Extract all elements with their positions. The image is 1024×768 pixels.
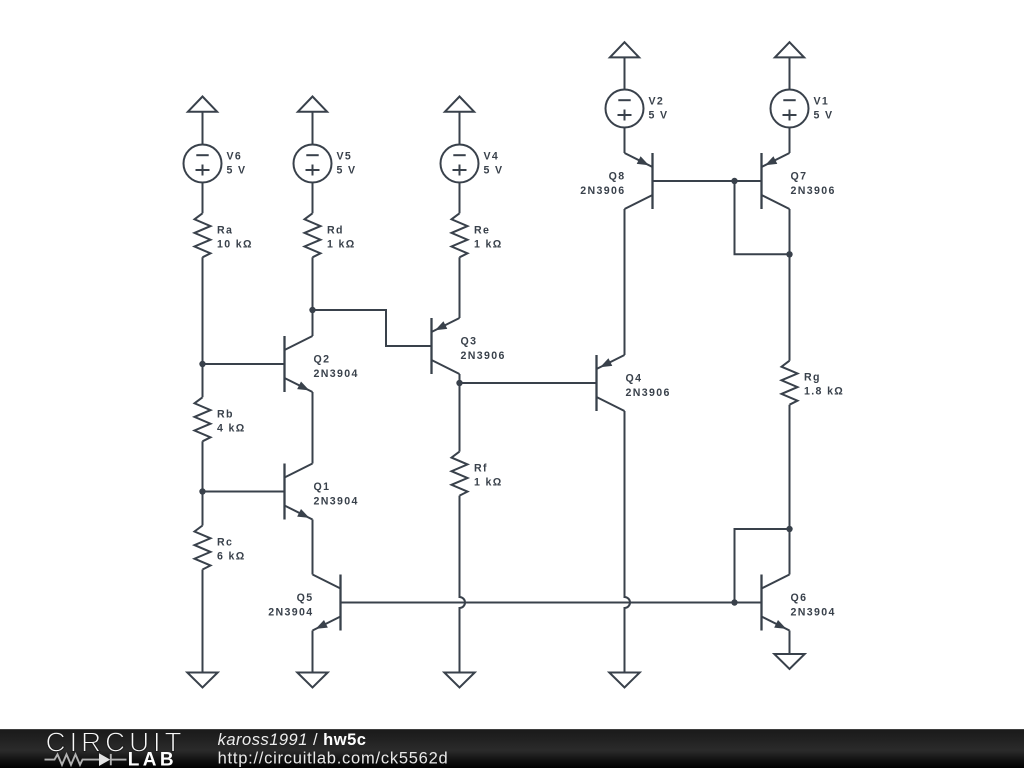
- wire E1: [789, 57, 791, 90]
- power supply PE: [775, 42, 804, 57]
- voltage source V6: [184, 145, 247, 183]
- ground GC: [444, 673, 474, 688]
- wire A3: [202, 257, 204, 397]
- transistor Q3: [432, 318, 506, 374]
- ground GB: [297, 673, 327, 688]
- node N6: [786, 251, 792, 257]
- svg-text:2N3906: 2N3906: [626, 387, 671, 399]
- wire C6: [460, 496, 466, 673]
- transistor Q1: [285, 464, 359, 520]
- node N3: [199, 488, 205, 494]
- transistor Q8: [580, 153, 652, 209]
- svg-text:Q7: Q7: [791, 171, 808, 183]
- logo diode: [99, 753, 110, 766]
- wire C2: [459, 183, 461, 214]
- wire A1: [202, 112, 204, 145]
- resistor Ra: [195, 213, 253, 257]
- svg-text:1 kΩ: 1 kΩ: [327, 238, 356, 250]
- voltage source V1: [771, 90, 834, 128]
- wire A5: [202, 570, 204, 673]
- wire B4: [312, 392, 314, 464]
- power supply PD: [610, 42, 639, 57]
- resistor Re: [452, 213, 503, 257]
- svg-text:http://circuitlab.com/ck5562d: http://circuitlab.com/ck5562d: [218, 750, 449, 768]
- wire D2: [624, 128, 626, 154]
- svg-text:2N3906: 2N3906: [791, 185, 836, 197]
- svg-text:Rc: Rc: [217, 537, 233, 549]
- svg-text:2N3904: 2N3904: [314, 495, 359, 507]
- node N7: [786, 526, 792, 532]
- svg-text:6 kΩ: 6 kΩ: [217, 551, 246, 563]
- svg-text:V6: V6: [227, 150, 243, 162]
- svg-text:Rg: Rg: [804, 372, 821, 384]
- svg-text:Rb: Rb: [217, 408, 234, 420]
- wire C4: [459, 374, 461, 383]
- wire A-Q1base: [203, 491, 285, 493]
- voltage source V2: [606, 90, 669, 128]
- wire B2: [312, 183, 314, 214]
- wire A-Q2base: [203, 363, 285, 365]
- svg-text:2N3904: 2N3904: [314, 368, 359, 380]
- svg-text:V2: V2: [649, 95, 665, 107]
- transistor Q4: [597, 355, 671, 411]
- svg-text:Q6: Q6: [791, 592, 808, 604]
- svg-text:Re: Re: [474, 224, 490, 236]
- transistor Q6: [762, 575, 836, 631]
- node N8: [731, 599, 737, 605]
- power supply PC: [445, 97, 474, 112]
- wire A4: [202, 441, 204, 525]
- transistor Q5: [268, 575, 340, 631]
- svg-text:Ra: Ra: [217, 224, 233, 236]
- node N5: [731, 178, 737, 184]
- resistor Rb: [195, 397, 246, 441]
- wire E4: [789, 209, 791, 361]
- power supply PB: [298, 97, 327, 112]
- voltage source V4: [441, 145, 504, 183]
- voltage source V5: [294, 145, 357, 183]
- footer bar: [0, 729, 1024, 768]
- wire D1: [624, 57, 626, 90]
- resistor Rg: [782, 361, 845, 405]
- wire C3: [459, 257, 461, 318]
- resistor Rf: [452, 452, 503, 496]
- svg-text:V1: V1: [814, 95, 830, 107]
- svg-text:Q3: Q3: [461, 336, 478, 348]
- wire B-Q3base: [313, 310, 432, 346]
- svg-text:1.8 kΩ: 1.8 kΩ: [804, 386, 844, 398]
- ground GD: [609, 673, 639, 688]
- svg-text:2N3904: 2N3904: [268, 606, 313, 618]
- svg-text:2N3904: 2N3904: [791, 606, 836, 618]
- svg-text:5 V: 5 V: [227, 165, 247, 177]
- wire D-Q8base: [653, 180, 762, 182]
- transistor Q2: [285, 336, 359, 392]
- svg-text:5 V: 5 V: [814, 110, 834, 122]
- wire C-Q4base: [460, 382, 597, 384]
- resistor Rd: [305, 213, 356, 257]
- wire E7: [789, 631, 791, 655]
- svg-text:kaross1991 / hw5c: kaross1991 / hw5c: [218, 731, 367, 749]
- svg-text:2N3906: 2N3906: [580, 185, 625, 197]
- svg-text:Rd: Rd: [327, 224, 344, 236]
- wire E-mirrorbase: [341, 602, 762, 604]
- svg-text:Q1: Q1: [314, 481, 331, 493]
- wire D4: [625, 411, 631, 673]
- svg-text:LAB: LAB: [128, 750, 177, 768]
- svg-text:2N3906: 2N3906: [461, 350, 506, 362]
- wire C5: [459, 383, 461, 452]
- wire B3: [312, 257, 314, 336]
- resistor Rc: [195, 526, 246, 570]
- wire B1: [312, 112, 314, 145]
- node N2: [199, 361, 205, 367]
- power supply PA: [188, 97, 217, 112]
- ground GA: [187, 673, 217, 688]
- svg-text:V4: V4: [484, 150, 500, 162]
- svg-text:5 V: 5 V: [649, 110, 669, 122]
- wire E6: [735, 529, 790, 603]
- svg-text:Rf: Rf: [474, 463, 488, 475]
- wire C1: [459, 112, 461, 145]
- node N1: [309, 307, 315, 313]
- ground GE: [774, 654, 804, 669]
- svg-text:Q8: Q8: [609, 171, 626, 183]
- wire B6: [312, 631, 314, 673]
- wire E2: [789, 128, 791, 154]
- svg-text:V5: V5: [337, 150, 353, 162]
- wire E5: [789, 405, 791, 575]
- svg-text:Q5: Q5: [297, 592, 314, 604]
- transistor Q7: [762, 153, 836, 209]
- logo wire glyph: [45, 754, 127, 765]
- node N4: [456, 380, 462, 386]
- wire D3: [624, 209, 626, 355]
- wire E3: [735, 181, 790, 254]
- svg-text:5 V: 5 V: [484, 165, 504, 177]
- svg-text:5 V: 5 V: [337, 165, 357, 177]
- svg-text:Q2: Q2: [314, 354, 331, 366]
- svg-text:1 kΩ: 1 kΩ: [474, 238, 503, 250]
- svg-text:10 kΩ: 10 kΩ: [217, 238, 253, 250]
- svg-text:1 kΩ: 1 kΩ: [474, 477, 503, 489]
- svg-text:4 kΩ: 4 kΩ: [217, 422, 246, 434]
- wire B5: [312, 520, 314, 575]
- svg-text:Q4: Q4: [626, 373, 643, 385]
- wire A2: [202, 183, 204, 214]
